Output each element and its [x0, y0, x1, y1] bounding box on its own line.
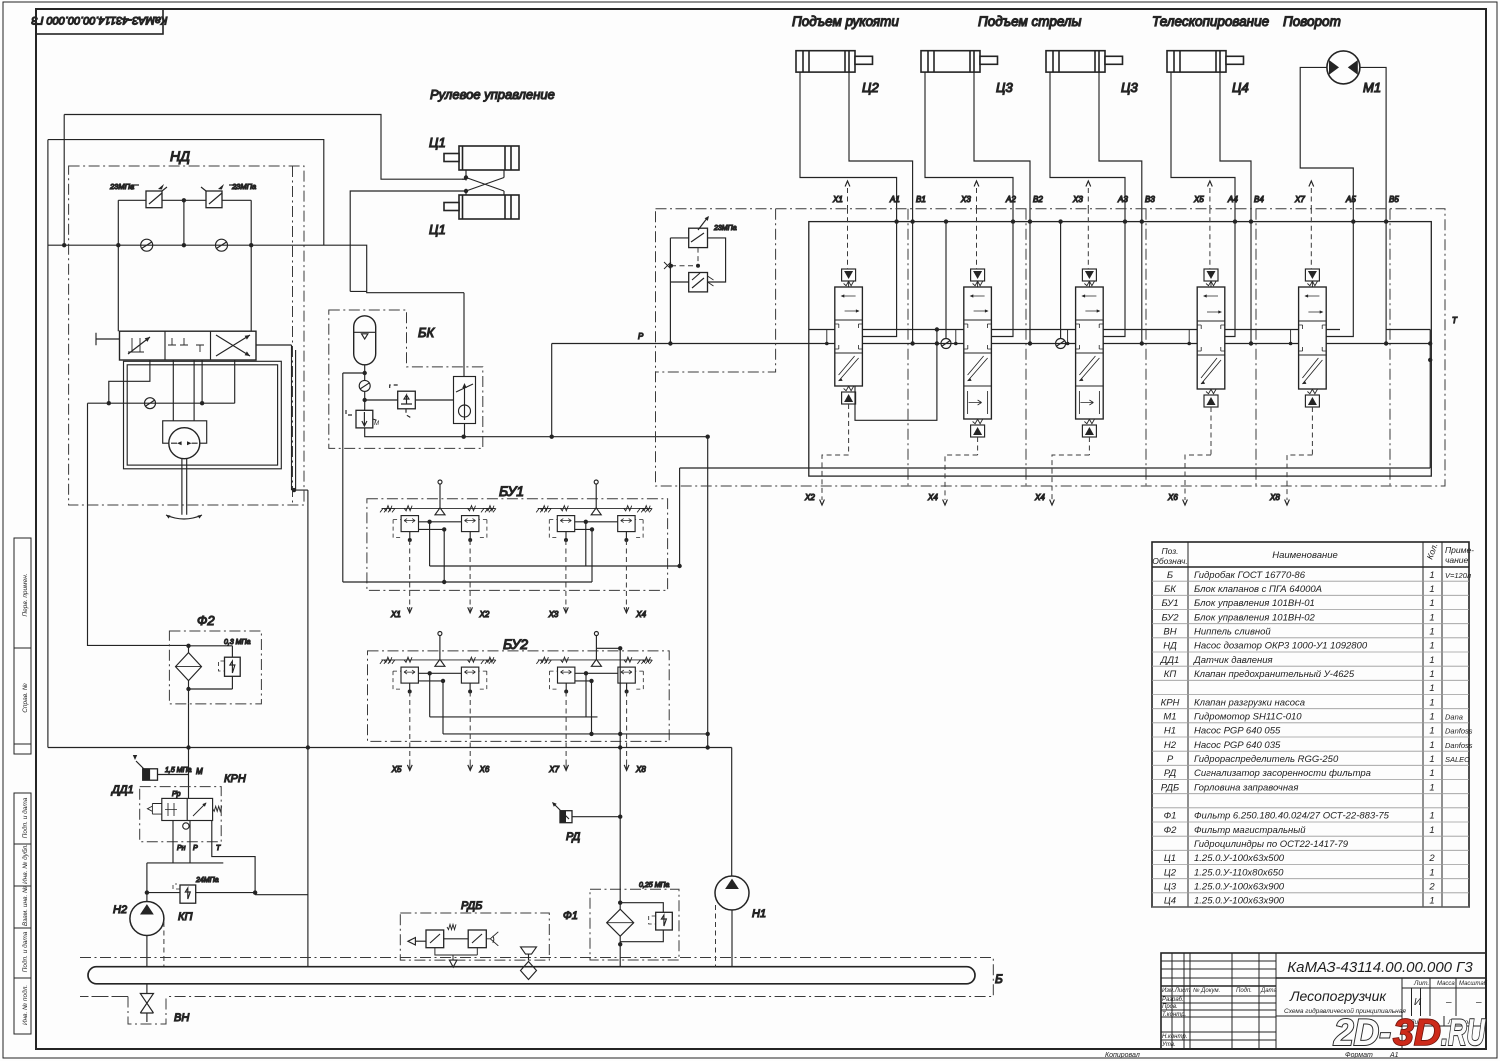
wire: second steering line	[48, 140, 324, 246]
wire cylinder to valve	[1050, 72, 1125, 222]
svg-text:1: 1	[1429, 697, 1434, 708]
svg-text:Масса: Масса	[1437, 981, 1455, 987]
relief valve 23МПа left	[132, 184, 167, 208]
НД steering valve	[120, 331, 257, 360]
БК flow control	[454, 377, 476, 424]
svg-text:1: 1	[1429, 655, 1434, 666]
БУ1 rails	[343, 566, 680, 582]
svg-text:1: 1	[1429, 754, 1434, 765]
svg-text:Насос PGP 640 035: Насос PGP 640 035	[1194, 740, 1281, 751]
svg-text:Dana: Dana	[1445, 713, 1463, 722]
svg-text:Наименование: Наименование	[1272, 550, 1338, 561]
pilot valve pair at 440	[381, 659, 495, 661]
РДБ filler breather	[400, 913, 549, 960]
svg-text:1: 1	[1429, 612, 1434, 623]
svg-text:1.25.0.У-100х63х900: 1.25.0.У-100х63х900	[1194, 896, 1285, 907]
svg-text:Приме-: Приме-	[1445, 545, 1474, 555]
НД right side wires	[256, 345, 308, 490]
svg-text:КРН: КРН	[1161, 697, 1180, 708]
svg-text:0,25 МПа: 0,25 МПа	[639, 882, 669, 889]
svg-text:Danfoss: Danfoss	[1445, 727, 1473, 736]
svg-text:1: 1	[1429, 726, 1434, 737]
svg-text:Насос дозатор ОКР3 1000-У1 109: Насос дозатор ОКР3 1000-У1 1092800	[1194, 641, 1368, 652]
valve 1 bottom link	[855, 330, 937, 421]
svg-text:1: 1	[1429, 811, 1434, 822]
check valve bus feeds	[946, 222, 1061, 339]
svg-text:3D: 3D	[1393, 1012, 1441, 1053]
cylinder Ц3	[1046, 51, 1123, 72]
svg-text:Рн: Рн	[177, 845, 186, 852]
svg-text:X7: X7	[548, 765, 559, 774]
check valve low	[145, 398, 156, 409]
left margin stamp column group 2	[14, 793, 31, 1034]
svg-text:КП: КП	[178, 911, 192, 923]
svg-text:Ц3: Ц3	[1121, 80, 1138, 95]
svg-text:Лесопогрузчик: Лесопогрузчик	[1289, 988, 1387, 1004]
svg-text:М: М	[374, 421, 379, 427]
svg-text:Блок управления 101ВН-01: Блок управления 101ВН-01	[1194, 598, 1315, 609]
svg-text:Ц1: Ц1	[1164, 853, 1176, 864]
svg-text:B3: B3	[1145, 195, 1155, 204]
svg-text:Ц4: Ц4	[1164, 896, 1176, 907]
pilot valve pair at 440	[382, 507, 496, 509]
svg-text:Подп. и дата: Подп. и дата	[21, 931, 29, 972]
check valve 2	[216, 239, 228, 251]
svg-text:М1: М1	[1363, 80, 1381, 95]
svg-text:2: 2	[1428, 882, 1435, 893]
svg-text:Т.контр.: Т.контр.	[1162, 1012, 1186, 1018]
НД check line	[48, 245, 464, 293]
left margin rotated labels	[21, 573, 29, 1025]
wire: vertical from top line	[63, 115, 65, 246]
svg-text:1: 1	[1429, 584, 1434, 595]
svg-text:Насос PGP 640 055: Насос PGP 640 055	[1194, 726, 1281, 737]
svg-text:0,3 МПа: 0,3 МПа	[224, 639, 251, 646]
svg-text:Т: Т	[216, 845, 221, 852]
wire cylinder to valve	[925, 72, 1013, 222]
svg-text:Ц2: Ц2	[862, 80, 879, 95]
svg-text:Н.контр.: Н.контр.	[1162, 1034, 1187, 1040]
Ф2 bypass relief	[219, 657, 241, 676]
wire cylinder to valve	[800, 72, 897, 222]
svg-text:X4: X4	[927, 493, 938, 502]
Ф1 element	[607, 909, 634, 936]
svg-text:Формат: Формат	[1345, 1052, 1373, 1059]
svg-text:23МПа: 23МПа	[231, 182, 256, 191]
svg-text:БУ2: БУ2	[503, 636, 528, 652]
svg-text:B2: B2	[1033, 195, 1043, 204]
БУ2 pilot dashed X5-X8	[409, 692, 411, 765]
БУ1 pilot dashed X1-X4	[409, 540, 411, 607]
svg-text:1: 1	[1429, 641, 1434, 652]
gerotor feed wires	[173, 360, 194, 421]
Ц1 lower wire	[350, 191, 466, 291]
svg-text:B4: B4	[1254, 195, 1264, 204]
БУ1 block boundary	[367, 499, 668, 591]
directional valve section 1	[862, 222, 896, 337]
svg-text:Н2: Н2	[1164, 740, 1177, 751]
svg-text:X5: X5	[391, 765, 402, 774]
svg-text:Гидробак ГОСТ 16770-86: Гидробак ГОСТ 16770-86	[1194, 570, 1306, 581]
svg-text:ВН: ВН	[1163, 627, 1176, 638]
svg-text:Фильтр магистральный: Фильтр магистральный	[1194, 825, 1306, 836]
svg-text:Б: Б	[1167, 570, 1173, 581]
svg-text:–: –	[1475, 997, 1482, 1008]
svg-text:A5: A5	[1345, 195, 1356, 204]
Н1 pump	[715, 876, 749, 910]
svg-text:Клапан разгрузки насоса: Клапан разгрузки насоса	[1194, 697, 1305, 708]
top-left stamp rotated text	[31, 14, 168, 26]
svg-text:Фильтр 6.250.180.40.024/27 ОСТ: Фильтр 6.250.180.40.024/27 ОСТ-22-883-75	[1194, 811, 1390, 822]
М1 wires	[1300, 67, 1353, 221]
P riser to valve block	[552, 344, 809, 437]
svg-text:X4: X4	[635, 610, 646, 619]
svg-text:X2: X2	[479, 610, 490, 619]
НД feedback double box	[124, 361, 282, 469]
2D-3D.RU watermark	[1333, 1012, 1486, 1053]
svg-text:1,5 МПа: 1,5 МПа	[165, 767, 192, 774]
svg-text:ВН: ВН	[174, 1012, 189, 1024]
svg-text:Разраб.: Разраб.	[1162, 997, 1184, 1003]
svg-text:М1: М1	[1163, 712, 1176, 723]
ВН drain valve	[146, 984, 148, 994]
directional valve section 5	[1326, 222, 1353, 337]
svg-text:X2: X2	[804, 493, 815, 502]
wire: steering top line	[64, 115, 466, 180]
svg-text:X6: X6	[1167, 493, 1178, 502]
svg-text:Рулевое управление: Рулевое управление	[430, 87, 555, 102]
accumulator	[354, 316, 376, 365]
svg-text:Подъем стрелы: Подъем стрелы	[978, 14, 1082, 29]
svg-text:Справ. №: Справ. №	[22, 683, 29, 713]
relief valve 23МПа right	[201, 184, 236, 208]
svg-text:М: М	[196, 767, 203, 776]
БК unload valve	[346, 409, 379, 428]
svg-text:Гидрораспределитель RGG-250: Гидрораспределитель RGG-250	[1194, 754, 1339, 765]
svg-text:Н1: Н1	[1164, 726, 1176, 737]
cylinder Ц1 bottom	[444, 195, 519, 219]
svg-text:Телескопирование: Телескопирование	[1152, 14, 1269, 29]
svg-text:1: 1	[1429, 825, 1434, 836]
НД block boundary	[69, 166, 304, 505]
svg-text:X5: X5	[1193, 195, 1204, 204]
svg-text:Danfoss: Danfoss	[1445, 741, 1473, 750]
P rail	[809, 329, 1340, 331]
svg-text:А1: А1	[1389, 1052, 1399, 1059]
БУ2 rails	[430, 717, 708, 734]
svg-text:A3: A3	[1117, 195, 1128, 204]
svg-text:Подп. и дата: Подп. и дата	[21, 797, 29, 838]
hydraulic motor М1	[1327, 51, 1360, 84]
ВН notch	[128, 997, 166, 1025]
БК check valve	[359, 380, 370, 391]
svg-text:КаМАЗ-43114.00.00.000 Г3: КаМАЗ-43114.00.00.000 Г3	[31, 14, 168, 26]
wire cylinder to valve	[1171, 72, 1235, 222]
Ф2 filter element	[176, 653, 202, 681]
БК wiring	[343, 365, 454, 582]
svg-text:НД: НД	[1163, 641, 1177, 652]
svg-text:Подъем рукояти: Подъем рукояти	[792, 14, 899, 29]
cylinder Ц4	[1167, 51, 1244, 72]
svg-text:БК: БК	[1164, 584, 1177, 595]
Ц1 cross wires	[466, 170, 504, 195]
svg-text:Лит.: Лит.	[1413, 980, 1429, 987]
right side riser	[1386, 330, 1430, 469]
БК block boundary	[329, 310, 483, 448]
svg-text:Ц2: Ц2	[1164, 867, 1177, 878]
directional valve section 3	[1103, 222, 1125, 337]
Ф1 bypass relief	[620, 903, 663, 942]
svg-text:1: 1	[1429, 570, 1434, 581]
svg-text:РД: РД	[566, 831, 580, 843]
directional valve section 2	[991, 222, 1013, 337]
svg-text:A4: A4	[1227, 195, 1238, 204]
check valve	[1056, 339, 1066, 349]
svg-text:Обознач.: Обознач.	[1152, 556, 1188, 566]
РД clog sensor	[553, 803, 572, 823]
left small grid	[1161, 960, 1276, 962]
svg-text:Поворот: Поворот	[1283, 14, 1341, 29]
svg-text:V=120л: V=120л	[1445, 571, 1472, 580]
svg-text:чание: чание	[1445, 555, 1469, 565]
svg-text:.RU: .RU	[1441, 1012, 1486, 1053]
gerotor motor НД	[163, 421, 207, 443]
svg-text:ДД1: ДД1	[110, 784, 134, 796]
svg-text:Датчик давления: Датчик давления	[1193, 655, 1273, 666]
svg-text:Сигнализатор засоренности филь: Сигнализатор засоренности фильтра	[1194, 768, 1371, 779]
svg-text:Подп.: Подп.	[1236, 988, 1252, 994]
svg-text:–: –	[1445, 997, 1452, 1008]
left margin stamp column group 1	[14, 538, 31, 754]
top-left stamp box	[36, 9, 163, 34]
svg-text:Гидроцилиндры по ОСТ22-1417-79: Гидроцилиндры по ОСТ22-1417-79	[1194, 839, 1349, 850]
svg-text:1.25.0.У-100х63х500: 1.25.0.У-100х63х500	[1194, 853, 1285, 864]
wire: left vertical T rail	[47, 140, 49, 748]
tank boundary	[80, 958, 993, 997]
БУ2 lever link	[597, 648, 620, 734]
svg-text:1: 1	[1429, 768, 1434, 779]
svg-text:Ц1: Ц1	[429, 222, 446, 237]
Н2 pump	[130, 902, 164, 936]
svg-text:1: 1	[1429, 782, 1434, 793]
svg-text:A1: A1	[889, 195, 900, 204]
svg-text:X1: X1	[390, 610, 401, 619]
relief sub-box	[656, 209, 776, 372]
Ф2 filter block	[169, 631, 261, 704]
svg-text:РДБ: РДБ	[461, 900, 482, 912]
svg-text:КП: КП	[1164, 669, 1177, 680]
svg-text:Утв.: Утв.	[1161, 1042, 1176, 1048]
svg-text:Блок клапанов с ПГА 64000А: Блок клапанов с ПГА 64000А	[1194, 584, 1322, 595]
svg-text:Ф1: Ф1	[1164, 811, 1177, 822]
svg-text:X3: X3	[1072, 195, 1083, 204]
svg-text:Изм.Лист: Изм.Лист	[1162, 988, 1190, 994]
svg-text:БУ2: БУ2	[1161, 612, 1179, 623]
svg-text:Ф1: Ф1	[563, 910, 578, 922]
svg-text:Р: Р	[193, 845, 198, 852]
svg-text:23МПа: 23МПа	[109, 182, 134, 191]
valve T handle	[96, 333, 120, 346]
T rail	[809, 343, 1430, 345]
svg-text:№ Докум.: № Докум.	[1193, 987, 1220, 994]
svg-text:1: 1	[1429, 669, 1434, 680]
svg-text:И: И	[1414, 997, 1422, 1008]
svg-text:X8: X8	[635, 765, 646, 774]
svg-text:Ц4: Ц4	[1232, 80, 1249, 95]
НД relief wiring	[118, 199, 251, 201]
svg-text:1: 1	[1429, 740, 1434, 751]
pilot valve pair at 596	[538, 507, 652, 509]
svg-text:Инв. № дубл.: Инв. № дубл.	[21, 844, 29, 884]
svg-text:Ц3: Ц3	[996, 80, 1013, 95]
svg-text:КаМАЗ-43114.00.00.000 Г3: КаМАЗ-43114.00.00.000 Г3	[1287, 959, 1473, 976]
relief wiring	[670, 238, 688, 344]
tank Б	[88, 967, 975, 984]
svg-text:Клапан предохранительный У-462: Клапан предохранительный У-4625	[1194, 669, 1355, 680]
svg-text:Рр: Рр	[172, 791, 181, 798]
wires check line to valve	[118, 245, 251, 331]
svg-text:Ц1: Ц1	[429, 135, 446, 150]
svg-text:SALEO: SALEO	[1445, 755, 1470, 764]
svg-text:X6: X6	[479, 765, 490, 774]
svg-text:1: 1	[1429, 683, 1434, 694]
svg-text:Перв. примен.: Перв. примен.	[22, 573, 29, 616]
T drain vertical x308	[255, 490, 308, 967]
КРН unload valve block	[140, 787, 222, 842]
svg-text:Ц3: Ц3	[1164, 882, 1177, 893]
section dividers	[907, 209, 909, 486]
svg-text:1: 1	[1429, 598, 1434, 609]
cylinder Ц1 top	[444, 146, 519, 170]
svg-text:X3: X3	[960, 195, 971, 204]
svg-text:Р: Р	[638, 332, 644, 341]
pilot valve pair at 596	[538, 659, 652, 661]
svg-text:Ф2: Ф2	[1164, 825, 1178, 836]
svg-text:Дата: Дата	[1260, 988, 1277, 994]
supply vertical x464	[463, 293, 466, 437]
svg-text:1.25.0.У-110х80х650: 1.25.0.У-110х80х650	[1194, 867, 1284, 878]
svg-text:X1: X1	[832, 195, 843, 204]
svg-text:2D-: 2D-	[1333, 1012, 1391, 1053]
ДД1 pressure sensor	[136, 761, 158, 780]
svg-text:23МПа: 23МПа	[713, 225, 737, 232]
svg-text:2: 2	[1428, 853, 1435, 864]
Р valve block boundary	[656, 209, 1446, 486]
svg-text:1: 1	[1429, 712, 1434, 723]
Ф2 to КРН	[188, 704, 190, 799]
svg-text:X4: X4	[1034, 493, 1045, 502]
pump riser x708	[707, 437, 709, 748]
directional valve section 4	[1225, 222, 1235, 337]
svg-text:X8: X8	[1269, 493, 1280, 502]
БК drain bottom	[365, 428, 708, 437]
svg-text:1: 1	[1429, 867, 1434, 878]
svg-text:Горловина заправочная: Горловина заправочная	[1194, 782, 1298, 793]
cylinder Ц2	[796, 51, 873, 72]
svg-text:КРН: КРН	[224, 773, 246, 785]
svg-text:1: 1	[1429, 896, 1434, 907]
Ф1 filter block	[590, 889, 679, 960]
svg-text:БУ1: БУ1	[1161, 598, 1178, 609]
svg-text:Пров.: Пров.	[1162, 1004, 1178, 1010]
svg-text:Масштаб: Масштаб	[1459, 981, 1488, 987]
svg-text:НД: НД	[170, 148, 190, 164]
left drain rail to Ф2	[88, 403, 189, 645]
block relief valve 23МПа	[689, 217, 708, 248]
svg-text:Поз.: Поз.	[1161, 546, 1178, 556]
svg-text:РД: РД	[1164, 768, 1177, 779]
БК relief valve	[390, 385, 416, 418]
svg-text:БК: БК	[418, 325, 435, 340]
cylinder Ц3	[921, 51, 998, 72]
КП relief valve	[173, 884, 196, 903]
КРН lower ports	[147, 821, 223, 902]
svg-text:Блок управления 101ВН-02: Блок управления 101ВН-02	[1194, 612, 1315, 623]
svg-text:B1: B1	[916, 195, 926, 204]
svg-text:X3: X3	[548, 610, 559, 619]
КРН valve body	[162, 798, 213, 820]
svg-text:Н1: Н1	[752, 908, 766, 920]
svg-text:1.25.0.У-100х63х900: 1.25.0.У-100х63х900	[1194, 882, 1285, 893]
svg-text:БУ1: БУ1	[499, 483, 524, 499]
svg-text:Р: Р	[1167, 754, 1174, 765]
svg-text:24МПа: 24МПа	[195, 877, 219, 884]
valve bank inner box	[809, 222, 1432, 477]
svg-text:Б: Б	[995, 972, 1003, 986]
svg-text:B5: B5	[1389, 195, 1399, 204]
T drain rail	[48, 748, 732, 877]
svg-text:A2: A2	[1005, 195, 1016, 204]
check valve 1	[141, 239, 153, 251]
ДД1 wire	[158, 774, 189, 776]
right rail riser	[680, 468, 1431, 566]
svg-text:1: 1	[1429, 627, 1434, 638]
svg-text:Взам. инв. №: Взам. инв. №	[22, 886, 29, 926]
check valve	[941, 339, 951, 349]
svg-text:ДД1: ДД1	[1160, 655, 1180, 666]
НД valve lower wires	[88, 360, 235, 403]
svg-text:Н2: Н2	[113, 904, 127, 916]
svg-text:Гидромотор SH11C-010: Гидромотор SH11C-010	[1194, 712, 1302, 723]
filler funnel	[521, 947, 537, 954]
svg-text:Инв. № подл.: Инв. № подл.	[21, 985, 29, 1026]
svg-text:РДБ: РДБ	[1161, 782, 1179, 793]
svg-text:Копировал: Копировал	[1105, 1052, 1140, 1059]
svg-text:X7: X7	[1294, 195, 1305, 204]
drive shaft	[182, 459, 187, 515]
svg-text:Ф2: Ф2	[197, 613, 215, 628]
БУ2 block boundary	[368, 651, 670, 742]
svg-text:Ниппель сливной: Ниппель сливной	[1194, 627, 1271, 638]
